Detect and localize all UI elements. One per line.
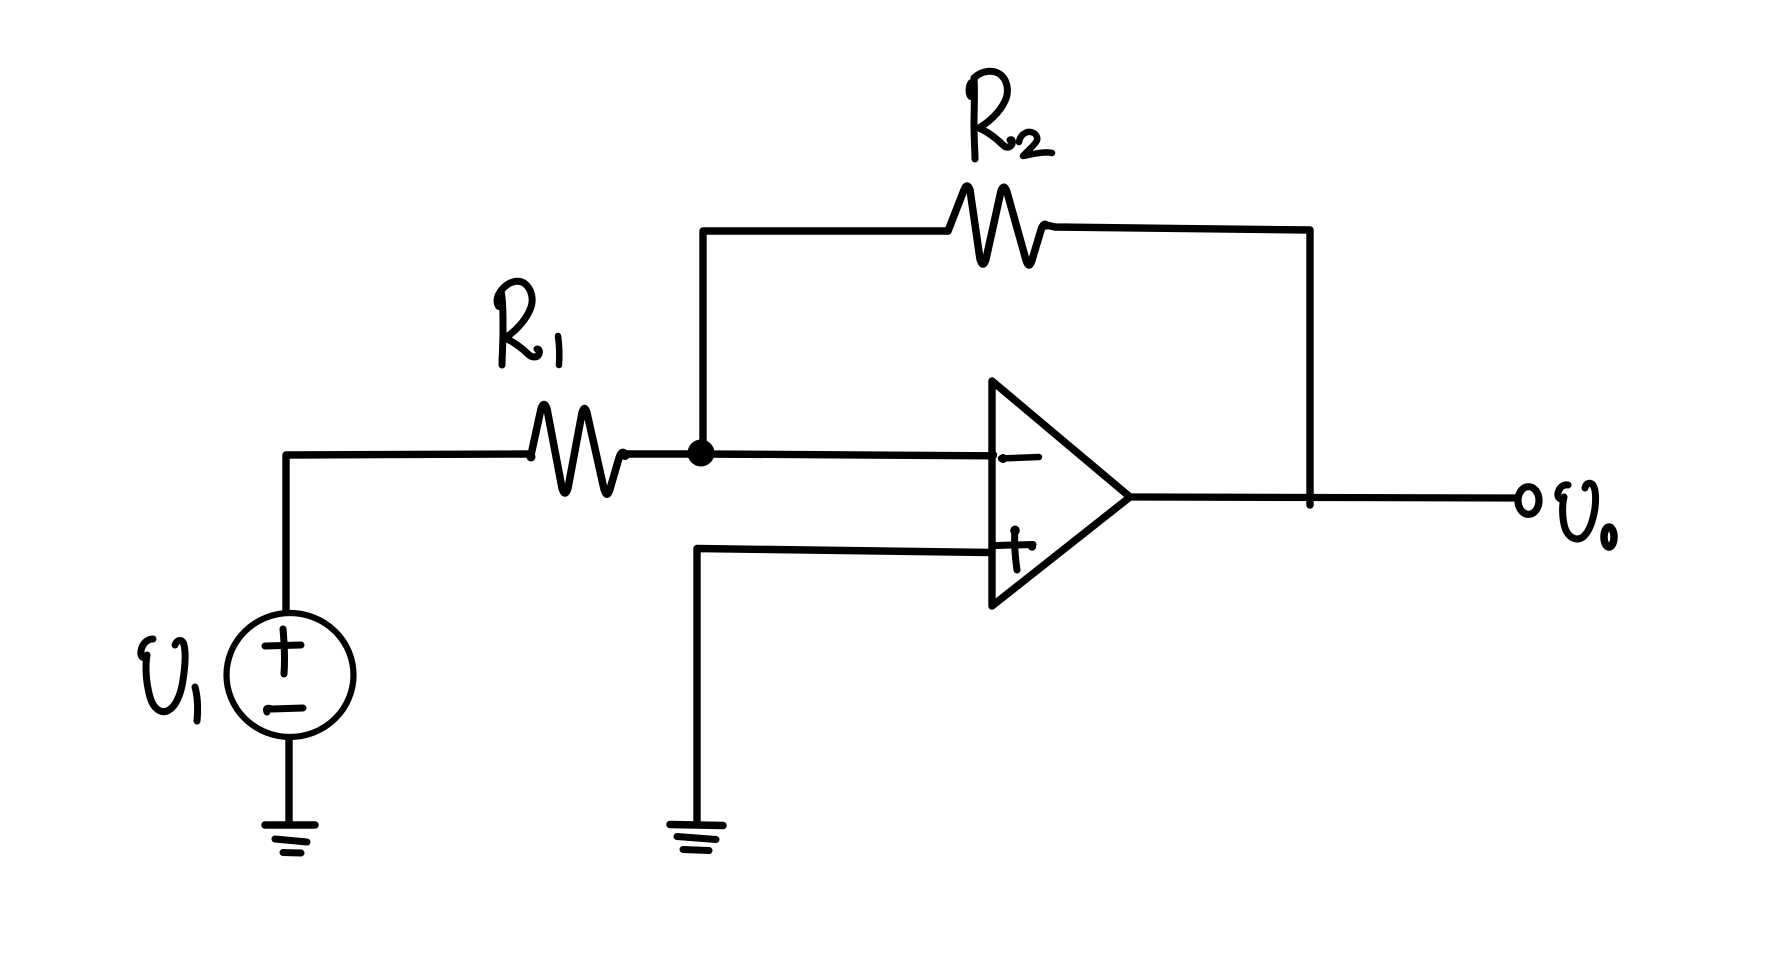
op-amp minus pin label [1001, 457, 1039, 459]
node: inverting input junction [688, 440, 715, 467]
ground (non-inverting input) [670, 825, 723, 851]
op-amp U1 [992, 381, 1130, 606]
wire: op-amp output [1130, 497, 1515, 498]
label R1 [498, 281, 560, 365]
wire: non-inverting input to ground [697, 549, 991, 825]
label Vo [1558, 483, 1614, 547]
label R2 [970, 71, 1052, 159]
wire: R1 right to node [624, 450, 696, 457]
resistor R2 [1041, 221, 1050, 230]
voltage source V1 [227, 613, 354, 737]
wire: node up to R2 left [703, 231, 948, 450]
op-amp plus pin label [996, 526, 1036, 570]
terminal Vo (open circle) [1518, 487, 1539, 515]
resistor R1 [527, 453, 536, 462]
wire: V1 top to R1 left [286, 454, 531, 612]
wire: V1 bottom to ground [285, 740, 292, 822]
label V1 [141, 639, 198, 721]
wire: node to op-amp inverting input [704, 454, 993, 456]
ground (under V1) [265, 825, 315, 853]
wire: R2 right to output junction [1046, 225, 1310, 505]
